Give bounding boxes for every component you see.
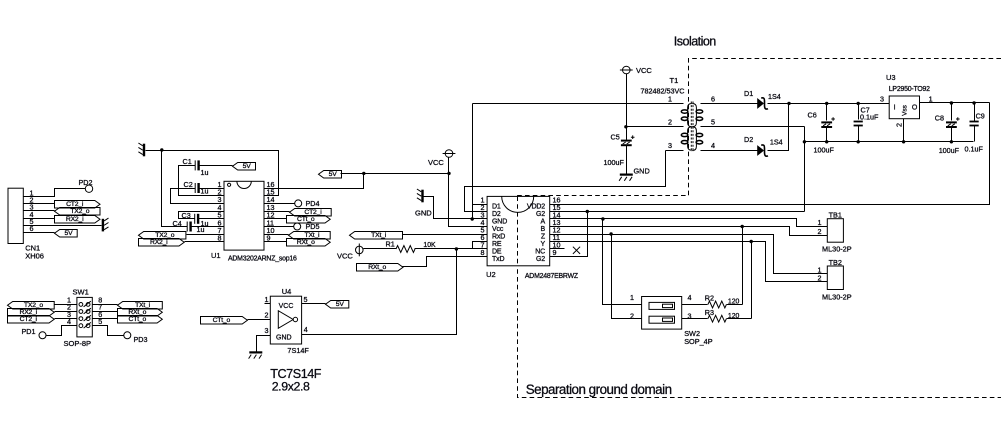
svg-text:U1: U1: [211, 251, 221, 260]
wire C2 left to U1 pin3: [171, 189, 225, 204]
svg-text:5: 5: [711, 118, 715, 127]
resistor R1 10K: [396, 246, 415, 253]
svg-text:RE: RE: [492, 241, 502, 248]
net label CT2_i at CN1 pin2: [55, 201, 101, 209]
svg-text:Vcc: Vcc: [492, 226, 504, 233]
terminal TB2 ML30-2P: [822, 258, 852, 302]
wire C4 right to U1 pin6: [191, 226, 225, 228]
svg-text:XH06: XH06: [25, 252, 44, 261]
svg-text:VCC: VCC: [636, 66, 652, 75]
wire U1 pin14 to PD4: [265, 203, 295, 205]
wire CN1 pin1 to PD2: [24, 189, 86, 197]
U1 pin numbers right: [267, 180, 275, 243]
SW1 pin numbers: [67, 296, 102, 326]
net label 5V at CN1 pin6: [55, 230, 78, 238]
wire TXt_i to U2 pin5: [403, 234, 488, 236]
net label CT2_i at U1 pin13: [290, 209, 332, 217]
junction C8 bottom: [950, 140, 953, 143]
isolation boundary dashed box: [518, 59, 1001, 398]
junction B to R2: [741, 225, 744, 228]
transformer T1 782482/53VC: [641, 76, 703, 152]
wire Y down to R3: [751, 242, 753, 319]
wire CT2_i to SW1 pin3: [55, 318, 77, 320]
TB1 pin numbers: [818, 218, 822, 236]
junction C9 top: [972, 101, 975, 104]
wire 5V rail: [341, 173, 449, 175]
wire U4 pin5 to 5V: [302, 303, 326, 305]
wire GND symbol to U2 pin3: [424, 197, 488, 219]
wire to C6: [826, 104, 828, 121]
net label TX2_o at U1 pin7: [139, 232, 186, 240]
svg-text:I: I: [894, 105, 896, 112]
svg-text:C6: C6: [808, 110, 817, 119]
svg-text:A: A: [540, 218, 545, 225]
svg-text:Isolation: Isolation: [674, 35, 717, 49]
svg-text:CTt_o: CTt_o: [213, 317, 231, 324]
svg-text:Y: Y: [540, 241, 545, 248]
power VCC at T1: [620, 66, 653, 75]
svg-text:0.1uF: 0.1uF: [860, 113, 879, 122]
wire GND2 rail: [805, 141, 974, 143]
ground below C5: [619, 175, 633, 181]
net label RXt_o at U1 pin9: [287, 239, 331, 247]
capacitor C9 0.1uF: [970, 122, 979, 126]
svg-text:TX2_o: TX2_o: [70, 208, 89, 215]
capacitor C2 1u: [184, 180, 209, 196]
wire T1 pin1 down to GND node: [472, 104, 474, 219]
svg-text:100uF: 100uF: [604, 158, 625, 167]
svg-text:O: O: [912, 105, 918, 112]
svg-text:C8: C8: [935, 113, 944, 122]
net label 5V at C1: [233, 163, 256, 171]
wire C1 right to 5V label: [199, 165, 233, 167]
wire earth to U1 pin15 GND: [146, 151, 279, 196]
svg-text:5V: 5V: [336, 301, 345, 308]
power VCC at R1: [337, 244, 363, 261]
svg-text:ML30-2P: ML30-2P: [822, 293, 852, 302]
svg-text:7S14F: 7S14F: [287, 346, 309, 355]
svg-text:SOP_4P: SOP_4P: [684, 337, 713, 346]
wire CN1 pin4: [24, 218, 55, 220]
no-connect X at U2 pin10: [573, 247, 580, 254]
svg-text:RXt_o: RXt_o: [368, 264, 386, 271]
svg-text:2: 2: [895, 123, 904, 127]
wire SW1 pin4 to PD1: [47, 326, 77, 336]
isolation dashed line through U2: [517, 196, 519, 265]
ground at U4 pin3: [249, 352, 263, 358]
junction VCC T1 pin2: [624, 125, 627, 128]
wire U2 pin6 RE to DE: [473, 242, 488, 249]
net label TXt_i at U2 pin5: [350, 232, 403, 240]
junction G2: [586, 210, 589, 213]
wire C5 to GND: [626, 146, 628, 175]
svg-text:T1: T1: [670, 76, 679, 85]
svg-text:4: 4: [711, 141, 715, 150]
svg-text:GND: GND: [276, 334, 292, 341]
earth ground at CN1 pin5: [103, 218, 109, 231]
svg-text:2: 2: [265, 310, 269, 319]
wire VCC down to C5: [626, 74, 628, 141]
svg-text:D1: D1: [744, 89, 753, 98]
wire CN1 pin5 to earth: [24, 225, 102, 227]
terminal TB1 ML30-2P: [822, 210, 852, 253]
wire U1 pin10: [265, 234, 289, 236]
svg-text:CTt_o: CTt_o: [129, 316, 147, 323]
TB2 pin numbers: [818, 265, 822, 282]
junction DE node: [455, 247, 458, 250]
svg-text:SW1: SW1: [73, 287, 89, 296]
svg-text:D2: D2: [492, 211, 501, 218]
wire SW1 pin6: [93, 318, 118, 320]
inverter U4 7S14F body: [270, 287, 309, 355]
svg-text:R1: R1: [386, 239, 395, 248]
T1 pin numbers: [668, 94, 715, 150]
net label 5V main rail: [319, 171, 342, 179]
SW2 pin numbers: [630, 293, 692, 321]
junction earth rail: [160, 148, 163, 151]
U2 pin numbers left: [481, 196, 485, 258]
wire C6 to GND2 rail: [826, 127, 828, 142]
svg-text:2: 2: [818, 273, 822, 282]
wire C3 left to U1 pin4: [179, 212, 225, 219]
svg-text:GND: GND: [634, 166, 650, 175]
svg-text:1S4: 1S4: [770, 138, 783, 147]
wire VCC to R1: [364, 248, 397, 250]
wire U1 pin16 to 5V rail: [265, 174, 364, 189]
svg-text:3: 3: [688, 312, 692, 321]
switch SW1 SOP-8P: [64, 287, 93, 348]
earth ground above U1: [138, 143, 144, 156]
svg-text:GND: GND: [415, 208, 432, 217]
junction U3 pin2 bottom: [902, 140, 905, 143]
pad PD5: [294, 222, 320, 231]
wire to C7: [858, 104, 860, 120]
svg-text:PD2: PD2: [79, 178, 93, 187]
net label CTt_o at SW1 pin6: [118, 316, 163, 324]
svg-text:PD4: PD4: [306, 199, 320, 208]
wire to T1 pin2: [627, 126, 684, 128]
junction C7 bottom: [857, 140, 860, 143]
svg-text:100uF: 100uF: [814, 145, 835, 154]
svg-text:PD3: PD3: [134, 335, 148, 344]
svg-text:TxD: TxD: [492, 256, 504, 263]
wire CN1 pin6: [24, 232, 55, 234]
resistor R3 120: [708, 315, 727, 322]
wire C9 to GND2 rail: [974, 126, 976, 142]
svg-text:3: 3: [880, 94, 884, 103]
svg-text:5V: 5V: [243, 163, 252, 170]
svg-text:GND: GND: [492, 218, 507, 225]
svg-text:R3: R3: [705, 308, 714, 317]
net label RX2_i at U1 pin8: [139, 239, 185, 247]
wire T1 pin5 center tap down to G2: [804, 127, 806, 212]
wire VCC to U2 pin4: [449, 158, 488, 227]
svg-text:5: 5: [304, 295, 308, 304]
svg-text:G2: G2: [536, 211, 545, 218]
wire U4 pin3 to ground: [257, 336, 271, 352]
svg-text:PD1: PD1: [22, 327, 36, 336]
net label 5V at U4 pin5: [326, 301, 349, 309]
wire SW2 pin3 to R3: [682, 318, 708, 320]
diode D1 1S4: [758, 98, 768, 109]
svg-text:C4: C4: [173, 219, 182, 228]
svg-text:R2: R2: [705, 294, 714, 303]
svg-text:3: 3: [265, 326, 269, 335]
CN1 pin numbers: [30, 189, 34, 234]
svg-text:U4: U4: [282, 287, 292, 296]
svg-text:2.9x2.8: 2.9x2.8: [272, 380, 310, 394]
svg-text:C9: C9: [976, 111, 985, 120]
svg-text:TB2: TB2: [829, 258, 842, 267]
net label CTt_o at U4 pin2: [201, 317, 248, 325]
svg-text:ML30-2P: ML30-2P: [822, 245, 852, 254]
wire R3 to Y net: [727, 318, 752, 320]
wire SW2 pin4 to R2: [682, 304, 708, 306]
wire C1 left to U1 pin2: [179, 166, 225, 196]
net label RXt_o at SW1 pin7: [118, 309, 163, 317]
wire C2 right to U1 pin1: [199, 188, 225, 190]
svg-text:TB1: TB1: [829, 210, 842, 219]
wire T1 pin6 to D1: [701, 103, 758, 105]
capacitor C8 100uF: [946, 117, 960, 127]
pad PD4: [295, 199, 320, 208]
junction 5V rail to VCC: [447, 172, 450, 175]
junction GND2 rail left: [803, 140, 806, 143]
wire SW1 pin8: [93, 304, 118, 306]
junction C6 bottom: [825, 140, 828, 143]
wire U1 pin11 to PD5: [265, 226, 294, 228]
wire D1 to U3 input: [768, 103, 890, 105]
wire T1 pin1 row: [473, 103, 684, 105]
capacitor C1 1u: [183, 157, 209, 177]
svg-text:10K: 10K: [423, 242, 436, 249]
junction 5V rail to U1 pin16: [362, 172, 365, 175]
wire A down to SW2 pin1: [603, 219, 642, 305]
wire U1 pin13: [265, 211, 290, 213]
svg-text:5V: 5V: [329, 171, 338, 178]
svg-text:LP2950-TO92: LP2950-TO92: [889, 86, 930, 93]
wire earth down to C4: [162, 151, 188, 227]
svg-text:VDD2: VDD2: [527, 203, 545, 210]
svg-text:VCC: VCC: [337, 252, 353, 261]
connector CN1 XH06 body: [8, 188, 44, 261]
earth ground GND at U2: [417, 189, 423, 202]
junction C6 top: [825, 102, 828, 105]
wire U2 pin1 stub: [473, 204, 488, 206]
svg-text:RXt_o: RXt_o: [297, 239, 315, 246]
junction C7 top: [857, 102, 860, 105]
capacitor C3 1u: [182, 211, 209, 228]
net label TXt_i at U1 pin10: [289, 232, 331, 240]
regulator U3 LP2950-TO92 body: [886, 73, 930, 119]
svg-text:2: 2: [818, 227, 822, 236]
capacitor C6 100uF: [821, 117, 835, 127]
svg-text:C1: C1: [183, 157, 192, 166]
wire D2 up to rectifier output: [768, 104, 789, 151]
wire Z down to SW2 pin2: [612, 235, 642, 319]
svg-text:D2: D2: [744, 135, 753, 144]
wire TX2_o to SW1 pin1: [55, 304, 77, 306]
svg-text:1: 1: [668, 94, 672, 103]
junction Y to R3: [750, 240, 753, 243]
resistor R2 120: [708, 301, 727, 308]
transceiver U2 ADM2487EBRWZ body: [486, 196, 578, 280]
svg-text:PD5: PD5: [306, 222, 320, 231]
wire U2 pin2 to T1 pin3: [465, 151, 666, 212]
svg-text:4: 4: [688, 293, 692, 302]
svg-text:D1: D1: [492, 203, 501, 210]
diode D2 1S4: [758, 145, 768, 156]
svg-text:1: 1: [929, 94, 933, 103]
net label CTt_o at U1 pin12: [287, 216, 331, 224]
U3 pin numbers: [880, 94, 933, 127]
wire U2 pin12 Z to TB2 pin1: [550, 235, 828, 274]
wire T1 pin5 row: [701, 126, 805, 128]
wire U4 pin1 stub: [265, 303, 271, 305]
U1 pin numbers left: [218, 180, 222, 243]
net label RXt_o at U2 pin8: [357, 264, 404, 272]
switch SW2 SOP_4P: [642, 297, 713, 347]
svg-text:9: 9: [553, 248, 557, 257]
wire RXt_o to U2 pin8 TxD: [403, 257, 488, 267]
svg-text:100uF: 100uF: [939, 146, 960, 155]
wire R2 to B net: [727, 304, 743, 306]
svg-text:3: 3: [668, 141, 672, 150]
net label TX2_o at CN1 pin3: [55, 208, 101, 216]
svg-text:ADM3202ARNZ_sop16: ADM3202ARNZ_sop16: [228, 256, 297, 263]
wire U2 pin10 NC stub: [550, 248, 565, 250]
svg-text:6: 6: [711, 94, 715, 103]
pad PD1: [22, 327, 47, 339]
wire TX2_o to U1 pin7: [187, 234, 225, 236]
wire U2 pin15 G2: [550, 211, 805, 213]
power VCC above U2: [428, 150, 455, 167]
net label TX2_o at SW1 pin1: [8, 302, 55, 310]
wire U2 pin9 G2 to pin15: [550, 212, 588, 257]
junction A to SW2: [601, 217, 604, 220]
wire C7 to GND2 rail: [858, 126, 860, 142]
U2 pin numbers right: [553, 196, 561, 258]
svg-text:1: 1: [265, 295, 269, 304]
svg-text:Vss: Vss: [902, 104, 909, 116]
svg-text:1u: 1u: [201, 168, 209, 177]
wire CTt_o to U4 pin2: [248, 319, 271, 321]
wire U1 pin9: [265, 241, 287, 243]
svg-text:RxD: RxD: [492, 233, 505, 240]
wire to C8: [951, 103, 953, 121]
svg-text:8: 8: [481, 248, 485, 257]
wire SW1 pin5 to PD3: [93, 326, 124, 336]
junction GND node: [471, 217, 474, 220]
wire T1 pin4 to D2: [701, 150, 758, 152]
wire to C9: [974, 103, 976, 122]
wire U2 pin13 B to TB1 pin2: [550, 227, 828, 236]
svg-text:G2: G2: [536, 256, 545, 263]
svg-text:1u: 1u: [201, 187, 209, 196]
svg-text:NC: NC: [535, 248, 545, 255]
svg-text:4: 4: [304, 325, 308, 334]
svg-text:C2: C2: [184, 180, 193, 189]
junction rectifier output: [787, 102, 790, 105]
wire U3 output rail: [920, 102, 990, 104]
wire U2 pin16 VDD2 to LDO output: [550, 103, 990, 205]
svg-text:2: 2: [668, 118, 672, 127]
svg-text:0.1uF: 0.1uF: [965, 145, 984, 154]
svg-text:B: B: [540, 226, 545, 233]
wire CN1 pin3: [24, 210, 55, 212]
U4 pin numbers: [265, 295, 308, 335]
net label TXt_i at SW1 pin8: [118, 302, 163, 310]
op-amp U1 ADM3202ARNZ_sop16 body: [211, 181, 297, 262]
net label RX2_i at CN1 pin4: [55, 216, 101, 224]
capacitor C7 0.1uF: [854, 122, 863, 126]
junction Z to SW2: [609, 232, 612, 235]
pad PD2: [79, 178, 93, 192]
wire C8 to GND2 rail: [951, 127, 953, 142]
svg-text:DE: DE: [492, 248, 502, 255]
wire C3 right to U1 pin5: [199, 218, 225, 220]
capacitor C4 1u: [173, 219, 205, 234]
wire U2 pin11 Y to TB2 pin2: [550, 242, 828, 282]
wire R1 to U2 pin7 DE: [415, 248, 488, 250]
svg-text:2: 2: [630, 312, 634, 321]
wire U3 pin2 to GND2 rail: [903, 119, 905, 142]
svg-text:1: 1: [630, 293, 634, 302]
svg-text:Separation ground domain: Separation ground domain: [526, 382, 672, 397]
wire CN1 pin2: [24, 203, 55, 205]
wire RX2_i to SW1 pin2: [55, 311, 77, 313]
wire U1 pin12: [265, 218, 287, 220]
svg-text:U3: U3: [886, 73, 896, 82]
pad PD3: [124, 332, 148, 344]
wire SW1 pin7: [93, 311, 118, 313]
svg-text:782482/53VC: 782482/53VC: [641, 87, 685, 96]
wire U2 pin14 A to TB1 pin1: [550, 219, 828, 227]
svg-text:1S4: 1S4: [768, 92, 781, 101]
svg-text:VCC: VCC: [428, 158, 444, 167]
capacitor C5 100uF: [621, 135, 635, 145]
junction C8 top: [950, 101, 953, 104]
net label RX2_i at SW1 pin2: [8, 309, 55, 317]
net label CT2_i at SW1 pin3: [8, 316, 55, 324]
wire U4 pin4 output to DE: [302, 249, 457, 335]
svg-text:5V: 5V: [64, 230, 73, 237]
svg-text:ADM2487EBRWZ: ADM2487EBRWZ: [525, 273, 578, 280]
svg-text:SOP-8P: SOP-8P: [64, 339, 92, 348]
svg-text:VCC: VCC: [279, 303, 294, 310]
svg-text:U2: U2: [486, 270, 496, 279]
wire B down to R2: [742, 227, 744, 305]
svg-text:1: 1: [818, 218, 822, 227]
wire T1 pin3 row: [666, 150, 684, 152]
wire RX2_i to U1 pin8: [185, 241, 225, 243]
svg-text:C5: C5: [611, 132, 620, 141]
